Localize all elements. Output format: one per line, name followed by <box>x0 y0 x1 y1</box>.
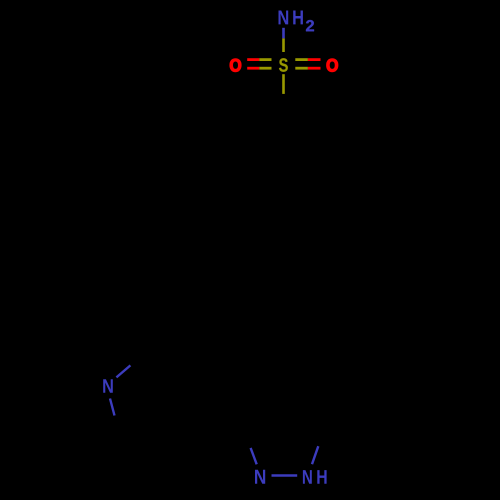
atom label NH (pyrazole N1-H) <box>303 470 327 484</box>
double bond S=O left, top line: olive half near S <box>259 58 271 61</box>
atom label N (pyridine nitrogen) <box>103 379 113 392</box>
double bond S=O left, bottom line: olive half near S <box>259 67 271 70</box>
double bond S=O right, bottom line: red half near O <box>308 67 321 70</box>
atom label NH2 (sulfonamide nitrogen) <box>279 11 314 32</box>
atom label S (sulfur) <box>279 58 288 71</box>
bond pyridine N-C upper-right half (blue) <box>116 365 130 377</box>
bond N-N (pyrazole, full blue) <box>272 474 298 477</box>
bond pyrazole N1-C5 half (blue, up-right) <box>312 446 318 464</box>
bond N-S lower half (olive) <box>282 38 285 52</box>
double bond S=O right, top line: red half near O <box>308 58 321 61</box>
double bond S=O left, top line: red half near O <box>247 58 259 61</box>
atom label O (left oxygen) <box>230 59 241 72</box>
double bond S=O left, bottom line: red half near O <box>247 67 259 70</box>
atom label N (pyrazole N2) <box>255 470 265 484</box>
atom label O (right oxygen) <box>327 59 338 72</box>
bond pyrazole N2=C3 half (blue, up-left) <box>251 448 257 464</box>
double bond S=O right, top line: olive half near S <box>295 58 308 61</box>
bond pyridine N-C lower half (blue) <box>110 399 115 416</box>
bond S-C upper half (olive, lower half invisible carbon) <box>282 74 285 94</box>
double bond S=O right, bottom line: olive half near S <box>295 67 308 70</box>
bond N-S upper half (blue) <box>282 28 285 39</box>
